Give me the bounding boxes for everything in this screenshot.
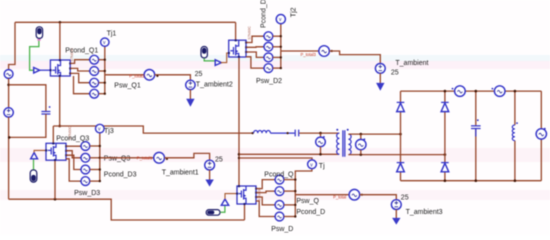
node bus p3 [104, 82, 106, 84]
svg-text:25: 25 [391, 70, 399, 77]
mosfet Q1 block [50, 59, 72, 77]
node leg2 top [444, 90, 447, 93]
gating block G1 [36, 27, 42, 39]
wire bridge top rail [401, 90, 542, 92]
wire Q3 pin2 to probe [66, 151, 81, 158]
node after P_total3 [331, 50, 333, 52]
wire bridge leg1 [400, 91, 402, 181]
probe P_total2 [144, 70, 155, 81]
wire primary bottom return [239, 153, 339, 155]
source T_ambient2 [186, 80, 195, 89]
probe Psw_D3 [80, 177, 100, 186]
gate driver buffer U4 [221, 199, 228, 205]
probe P_total [349, 189, 360, 200]
gate driver buffer U3 [31, 153, 38, 159]
wire Tj tap horizontal [239, 158, 312, 160]
probe Pcond_D3 [80, 165, 100, 174]
wire gate green G4 [220, 206, 225, 213]
probe P_total3 [319, 46, 330, 57]
wire dc-link cap top [9, 85, 46, 111]
mosfet Q3 block [45, 143, 67, 162]
svg-text:25: 25 [195, 71, 203, 78]
svg-text:P_total3: P_total3 [301, 52, 317, 57]
wire voltmeter branch [540, 91, 542, 181]
probe Psw_D [274, 212, 295, 221]
node load bottom [514, 179, 517, 182]
node bus q2p2 [280, 46, 282, 48]
node cap bottom [475, 179, 478, 182]
polarity dot primary [336, 129, 338, 131]
wire Q2 pin1 to probe [246, 36, 264, 42]
node bus q3p1 [99, 145, 101, 147]
source T_ambient [375, 64, 385, 74]
probe Psw_D1 [89, 89, 105, 98]
node bus q4p2 [294, 190, 296, 192]
node after P_total [361, 194, 363, 196]
probe Pcond_Q3 [80, 142, 100, 151]
node bus q3p4 [99, 180, 101, 182]
node secondary probe top [360, 133, 363, 136]
svg-text:Psw_Q1: Psw_Q1 [114, 82, 141, 89]
polarity dot secondary [347, 129, 349, 131]
wire Q4 pin4 to probe [256, 201, 275, 217]
wire secondary bottom [348, 154, 445, 156]
svg-text:T_ambient3: T_ambient3 [406, 209, 443, 216]
probe Pcond_D1 [89, 78, 105, 87]
wire Q3 drain [52, 126, 54, 143]
svg-text:Tj2: Tj2 [290, 7, 297, 17]
diode D1 [397, 102, 405, 111]
thermal ground arrow T_ambient [379, 73, 381, 83]
wire Q2 summing bus [280, 24, 282, 68]
wire bus tap to P_total1 [100, 157, 154, 159]
node bus q4p4 [294, 215, 296, 217]
wire buffer to gate Q2 [221, 53, 229, 63]
voltmeter V_pri [320, 133, 322, 137]
wire bus tap to P_total [295, 194, 349, 196]
inductor Lr [254, 131, 271, 134]
wire Q3 pin3 to probe [66, 155, 81, 169]
node leg2 bottom [444, 179, 447, 182]
node after P_total2 [156, 75, 158, 77]
wire Q2 pin4 to probe [246, 57, 264, 68]
node bus q2p3 [280, 56, 282, 58]
mosfet Q4 block [236, 185, 257, 205]
wire gate green G3 [33, 159, 35, 170]
wire Q4 pin3 to probe [256, 197, 275, 205]
node bus q2p4 [280, 67, 282, 69]
wire bus tap to P_total2 [105, 74, 144, 76]
node secondary probe bottom [360, 153, 363, 156]
wire leg1 midpoint bus to LC [53, 126, 252, 133]
probe Psw_Q3 [80, 153, 100, 162]
node Q3 source on rail [54, 198, 57, 201]
wire Q1 pin1 to probe [70, 60, 90, 64]
probe Pcond_D [274, 201, 295, 210]
thermal ground arrow T_ambient1 [209, 170, 211, 180]
capacitor Cr [295, 130, 299, 137]
probe Pcond_D2 [263, 53, 281, 62]
wire output cap branch [475, 91, 477, 181]
svg-text:Pcond_Q: Pcond_Q [264, 172, 294, 179]
svg-text:P_total2: P_total2 [129, 74, 145, 79]
svg-text:P_total: P_total [333, 194, 346, 199]
wire left rail below ammeter [8, 78, 10, 107]
wire buffer to gate [40, 69, 51, 71]
wire Q3 summing bus [99, 133, 101, 181]
wire gate green G2 [204, 58, 215, 61]
wire buffer to gate Q3 [34, 150, 46, 152]
gating block G4 [206, 210, 220, 216]
source T_ambient1 [205, 160, 215, 170]
node primary top [319, 132, 322, 135]
probe Pcond_Q2 [263, 32, 281, 41]
node bridge mid left [399, 133, 402, 136]
svg-text:25: 25 [401, 194, 409, 201]
gate driver buffer U2 [215, 60, 221, 66]
svg-text:P_total1: P_total1 [137, 156, 153, 161]
probe P_total1 [154, 152, 165, 163]
transformer TX primary winding [337, 133, 340, 154]
transformer core [343, 130, 345, 157]
transformer secondary winding [348, 134, 351, 154]
wire bridge bottom rail [401, 180, 542, 182]
wire C to primary [299, 132, 338, 134]
thermal ground arrow T_ambient3 [395, 210, 397, 219]
probe Psw_Q2 [263, 42, 281, 51]
node bus q3p2 [99, 157, 101, 159]
node voltmeter bottom [319, 153, 322, 156]
node bus q4p3 [294, 204, 296, 206]
voltage source Vin [4, 108, 13, 117]
probe Pcond_Q1 [89, 55, 105, 64]
svg-text:Psw_Q3: Psw_Q3 [104, 155, 131, 162]
ammeter A_in [4, 70, 13, 79]
wire Q source to rail [244, 204, 246, 220]
node primary return tap [238, 153, 241, 156]
node after P_total1 [166, 158, 168, 160]
wire bus tap to P_total3 [281, 50, 319, 52]
voltmeter Tj3 [96, 124, 105, 133]
voltmeter Tj2 [276, 15, 285, 24]
node between L and C [287, 132, 289, 134]
svg-text:Pcond_D: Pcond_D [296, 209, 325, 216]
diode D2b [397, 163, 405, 172]
wire Q3 source [54, 160, 56, 199]
wire dc-link cap bottom [9, 114, 46, 137]
wire Q1 pin4 to probe [74, 76, 90, 94]
wire load branch [514, 91, 516, 181]
gate driver buffer U1 [34, 68, 40, 74]
wire Q1 pin3 to probe [70, 73, 90, 82]
wire P_total3 to T_ambient [329, 51, 380, 64]
wire P_total to T_ambient3 [360, 195, 397, 200]
wire Q4 summing bus [294, 175, 296, 217]
wire L to C [270, 132, 294, 134]
diode D4 [441, 163, 449, 172]
ammeter I_o1 [452, 86, 466, 97]
svg-text:Psw_Q: Psw_Q [296, 198, 319, 205]
wire Q2 drain from rail corner [235, 22, 237, 40]
svg-text:T_ambient2: T_ambient2 [196, 82, 233, 89]
probe Psw_D2 [263, 64, 281, 73]
svg-text:Tj: Tj [319, 163, 325, 170]
wire Q3 pin1 to probe [66, 145, 81, 147]
wire top DC+ rail [15, 21, 236, 23]
svg-text:Tj3: Tj3 [104, 128, 114, 135]
svg-text:Psw_D2: Psw_D2 [256, 78, 282, 85]
node bus q3p3 [99, 168, 101, 170]
ammeter I_sec [360, 134, 362, 139]
wire Q4 pin1 to probe [256, 180, 275, 189]
wire P_total2 to T_ambient2 [155, 75, 191, 80]
wire left rail below source [8, 117, 10, 199]
voltmeter V_out [536, 128, 546, 139]
node top rail to Q1 [59, 21, 62, 24]
svg-text:25: 25 [215, 156, 223, 163]
capacitor C_out [471, 119, 481, 136]
node cap top [475, 90, 478, 93]
wire bus to voltmeter Tj [295, 169, 312, 175]
gating block G2 [201, 47, 207, 58]
wire Q2 pin3 to probe [246, 52, 264, 57]
svg-text:Pcond_D2: Pcond_D2 [260, 0, 267, 28]
svg-text:Pcond_Q3: Pcond_Q3 [56, 135, 89, 142]
faint jpeg tint bands [0, 55, 550, 200]
node bus p1 [104, 59, 106, 61]
thermal ground arrow T_ambient2 [189, 90, 191, 99]
wire P_total1 to T_ambient1 [165, 153, 210, 160]
node inductor left [252, 132, 254, 134]
svg-text:Pcond_D3: Pcond_D3 [104, 171, 137, 178]
node bus p2 [104, 70, 106, 72]
wire Q1 source to midpoint [59, 76, 61, 126]
node cap bottom [8, 136, 11, 139]
probe Pcond_Q [274, 175, 295, 184]
node leg1 midpoint [58, 125, 61, 128]
node bus q2p1 [280, 35, 282, 37]
artifact mark under G1 [37, 39, 40, 41]
wire Q4 pin2 to probe [256, 191, 275, 193]
node load top [514, 90, 517, 93]
node Tj tap [238, 157, 240, 159]
svg-text:Pcond_Q1: Pcond_Q1 [65, 47, 98, 54]
wire left rail drop from top [9, 22, 15, 69]
wire Q1 pin2 to probe [70, 68, 90, 71]
node input top [7, 84, 10, 87]
svg-text:Psw_D3: Psw_D3 [74, 190, 100, 197]
voltmeter Tj [308, 160, 317, 169]
wire secondary top [348, 133, 400, 135]
svg-text:Psw_D: Psw_D [271, 226, 293, 233]
wire Q2 source long leg down to Q drain [238, 57, 240, 186]
gating block G3 [30, 170, 37, 182]
wire Q3 pin4 to probe [66, 159, 81, 181]
probe Psw_Q1 [89, 67, 105, 76]
node bridge mid right [444, 153, 447, 156]
wire Q1 summing bus [104, 46, 106, 93]
source T_ambient3 [391, 200, 401, 210]
voltmeter Tj1 [101, 38, 109, 46]
node bus p4 [104, 93, 106, 95]
wire Q1 drain [59, 22, 61, 60]
wire gate green G1 [30, 41, 39, 70]
svg-text:T_ambient: T_ambient [395, 60, 428, 67]
wire bridge leg2 [444, 91, 446, 181]
svg-text:T_ambient1: T_ambient1 [162, 169, 199, 176]
mosfet Q2 block [228, 39, 247, 57]
wire buffer to gate Q4 [225, 194, 237, 199]
wire bottom DC- rail [9, 199, 245, 220]
wire Q2 pin2 to probe [246, 46, 264, 49]
capacitor C_in [41, 106, 50, 114]
ammeter I_o2 [492, 86, 506, 97]
svg-text:S7N60C: S7N60C [248, 26, 252, 40]
node bus q4p1 [294, 178, 296, 180]
resistor R_load [512, 122, 518, 140]
probe Psw_Q [274, 187, 295, 196]
diode D3 [441, 102, 449, 111]
svg-text:Tj1: Tj1 [107, 31, 117, 38]
